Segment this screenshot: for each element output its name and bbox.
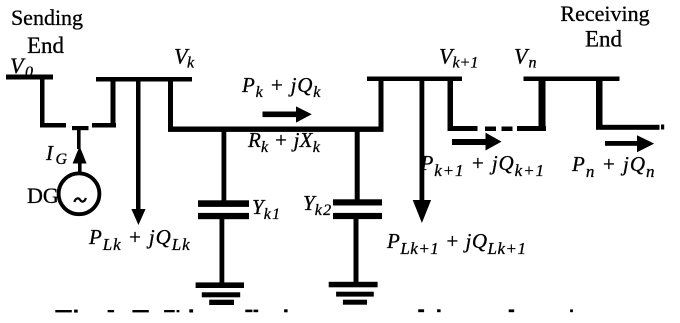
wire switch blade riser <box>77 128 81 149</box>
wire arrow to DG <box>78 162 82 174</box>
caption fringe (letter tops of cropped caption) <box>55 309 573 312</box>
power flow arrow Pk+1 <box>452 133 502 151</box>
label Sending End <box>11 5 83 58</box>
wire solid segment before Vn riser <box>517 126 546 131</box>
wire solid segment after Vk+1 <box>448 126 478 131</box>
wire riser from Vk+1 bus <box>448 80 454 131</box>
capacitor Yk2 plates <box>333 199 382 205</box>
svg-text:PLk + jQLk: PLk + jQLk <box>88 225 191 254</box>
svg-text:Vk: Vk <box>174 44 195 72</box>
capacitor Yk1 plates <box>198 200 249 207</box>
svg-text:Rk + jXk: Rk + jXk <box>247 128 321 156</box>
bus Vk+1 <box>367 77 462 82</box>
svg-text:Receiving: Receiving <box>560 1 649 26</box>
ground for Yk1 <box>196 282 244 305</box>
wire switch left contact <box>40 123 66 128</box>
svg-text:End: End <box>27 33 65 58</box>
wire feeder line Rk <box>168 127 384 132</box>
wire feeder right riser <box>379 80 384 131</box>
wire load line at bus k <box>136 80 141 211</box>
svg-text:IG: IG <box>45 141 68 168</box>
load arrowhead PLk+1 (down) <box>413 200 431 223</box>
power flow arrow Pn <box>605 135 654 152</box>
wire dash 1 <box>485 127 496 132</box>
capacitor Yk1 branch wire <box>222 131 227 201</box>
wire riser from Vn bus right <box>596 80 603 129</box>
bus Vn <box>524 77 620 82</box>
svg-text:Pk + jQk: Pk + jQk <box>241 73 321 101</box>
svg-text:Pn + jQn: Pn + jQn <box>571 152 656 181</box>
bus Vk <box>96 77 192 82</box>
wire switch right contact <box>92 123 116 128</box>
ground for Yk2 <box>329 282 378 305</box>
svg-text:PLk+1 + jQLk+1: PLk+1 + jQLk+1 <box>386 229 526 258</box>
wire riser to Vn bus <box>539 80 546 131</box>
wire switch right riser to Vk bus <box>111 80 116 127</box>
svg-text:End: End <box>585 27 623 52</box>
capacitor Yk1 lower wire <box>220 219 225 283</box>
wire load line at bus k+1 <box>420 80 425 201</box>
capacitor Yk2 branch wire <box>355 131 360 200</box>
wire V0 bus drop <box>40 77 45 127</box>
DG source circle <box>59 173 100 214</box>
wire end dash <box>661 125 664 130</box>
wire line to receiving end <box>596 125 660 130</box>
DG tilde symbol <box>74 198 86 202</box>
capacitor Yk2 lower wire <box>354 219 359 283</box>
svg-text:DG: DG <box>27 183 59 208</box>
label Receiving End <box>560 1 649 52</box>
svg-text:Vk+1: Vk+1 <box>439 44 478 72</box>
wire dash 2 <box>502 127 513 132</box>
current IG arrowhead (up) <box>73 146 87 164</box>
switch blade (middle bar) <box>72 126 89 130</box>
load arrowhead PLk (down) <box>131 209 145 225</box>
wire feeder left riser <box>168 80 173 131</box>
svg-text:Pk+1 + jQk+1: Pk+1 + jQk+1 <box>420 151 545 180</box>
svg-text:Vn: Vn <box>514 44 536 72</box>
svg-text:Yk2: Yk2 <box>303 191 332 219</box>
power flow arrow Pk <box>263 106 312 122</box>
bus V0 <box>6 75 53 80</box>
svg-text:Yk1: Yk1 <box>252 195 281 223</box>
svg-text:Sending: Sending <box>11 5 83 30</box>
